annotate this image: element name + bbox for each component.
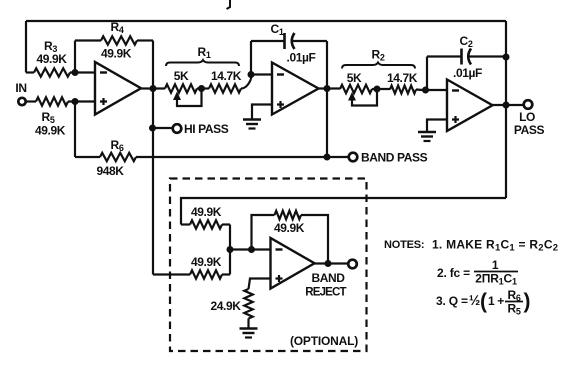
- resistor summer feedback 49.9K: [252, 211, 329, 264]
- label upper 49.9K: [191, 205, 222, 219]
- node U1 output junction: [150, 85, 157, 92]
- wire HP vertical down: [152, 89, 154, 275]
- resistor 24.9K: [244, 289, 252, 319]
- svg-text:5K: 5K: [347, 71, 362, 85]
- svg-text:948K: 948K: [96, 164, 124, 178]
- note 2 fraction numerator: [492, 258, 499, 272]
- label C1 value: [287, 51, 316, 65]
- U3 non-inverting input +: [452, 116, 459, 123]
- label R3: [44, 39, 57, 54]
- note 3 fraction denominator R5: [508, 302, 521, 317]
- resistor R1 14.7K: [197, 79, 251, 93]
- wire U4 + input: [249, 279, 271, 290]
- terminal HI PASS: [173, 124, 182, 133]
- label 5K R2: [347, 71, 362, 85]
- terminal LO PASS: [524, 100, 533, 109]
- svg-text:C1: C1: [271, 22, 284, 37]
- potentiometer R2 5K: [340, 85, 372, 93]
- node R1 wiper junction: [198, 85, 205, 92]
- note 3 fraction numerator R6: [508, 288, 521, 303]
- node summer junction: [227, 246, 234, 253]
- svg-text:R2: R2: [372, 48, 385, 63]
- wire U2 output: [319, 87, 341, 89]
- svg-text:.01µF: .01µF: [287, 51, 316, 65]
- dashed box optional: [170, 179, 367, 352]
- note 3 open paren: [480, 290, 487, 313]
- label R4 value 49.9K: [101, 47, 132, 61]
- svg-text:R5: R5: [508, 302, 521, 317]
- svg-text:HI PASS: HI PASS: [184, 122, 229, 136]
- capacitor C2 .01uF: [427, 49, 506, 65]
- U4 non-inverting input +: [276, 275, 283, 282]
- svg-text:1: 1: [492, 258, 499, 272]
- note 2 text: [437, 266, 470, 280]
- R1 wiper arrow: [173, 89, 202, 107]
- wire left vertical to R3: [25, 21, 27, 73]
- op-amp U1: [95, 62, 141, 115]
- label 5K: [174, 69, 189, 83]
- label C2 value: [453, 66, 482, 80]
- wire U3 inverting input: [426, 89, 448, 91]
- svg-text:BAND PASS: BAND PASS: [361, 151, 428, 165]
- wire band pass line: [136, 156, 349, 158]
- label R4: [111, 20, 124, 35]
- wire to HI PASS terminal: [153, 127, 173, 129]
- terminal IN: [18, 98, 25, 105]
- label 14.7K: [211, 69, 242, 83]
- resistor R5 49.9K: [27, 97, 96, 105]
- wire R4 right riser to U1 output: [152, 41, 154, 89]
- label 14.7K R2: [387, 71, 418, 85]
- svg-text:R1: R1: [198, 45, 211, 60]
- label REJECT: [305, 287, 346, 299]
- label feedback 49.9K: [274, 221, 305, 235]
- note 1 text: [432, 238, 558, 254]
- label R5: [42, 110, 55, 125]
- wire U4 output: [315, 262, 349, 264]
- svg-text:2. fc =: 2. fc =: [437, 266, 470, 280]
- svg-text:(OPTIONAL): (OPTIONAL): [290, 334, 358, 348]
- svg-text:14.7K: 14.7K: [211, 69, 242, 83]
- terminal BAND REJECT: [348, 260, 357, 269]
- note 2 fraction denominator: [475, 272, 517, 287]
- op-amp U3: [447, 80, 493, 132]
- svg-text:PASS: PASS: [514, 123, 545, 137]
- U1 non-inverting input +: [100, 98, 107, 105]
- label R6 value 948K: [96, 164, 124, 178]
- wire LP return to summer: [181, 198, 506, 225]
- label R3 value 49.9K: [36, 52, 67, 66]
- label PASS: [514, 123, 545, 137]
- wire U1 output: [141, 87, 165, 89]
- resistor R2 14.7K: [372, 86, 426, 94]
- label lower 49.9K: [191, 255, 222, 269]
- svg-text:1. MAKE R1C1 = R2C2: 1. MAKE R1C1 = R2C2: [432, 238, 558, 254]
- label 24.9K: [210, 299, 241, 313]
- wire C2 left riser: [426, 57, 428, 91]
- wire U3 + to ground: [427, 120, 447, 132]
- resistor R3 49.9K: [26, 68, 95, 76]
- wire R4 left riser: [74, 41, 76, 73]
- node junction R5/R6 non-inverting: [72, 98, 79, 105]
- node LO PASS junction: [503, 102, 510, 109]
- resistor R4 49.9K: [75, 36, 153, 44]
- ground 24.9K: [240, 329, 258, 338]
- label HI PASS: [184, 122, 229, 136]
- node U4 output junction: [325, 260, 332, 267]
- resistor R6 948K: [75, 153, 136, 161]
- node HI PASS tap: [149, 125, 156, 132]
- label BAND PASS: [361, 151, 428, 165]
- svg-text:BAND: BAND: [311, 271, 345, 285]
- U3 inverting input -: [452, 89, 459, 91]
- svg-text:R6: R6: [111, 138, 124, 153]
- ground U2: [243, 120, 261, 129]
- wire U2 output to band pass: [326, 89, 328, 158]
- terminal BAND PASS: [349, 153, 358, 162]
- label R1: [198, 45, 211, 60]
- svg-text:49.9K: 49.9K: [101, 47, 132, 61]
- U2 inverting input -: [277, 73, 284, 75]
- wire top feedback (LP to R3): [26, 20, 506, 22]
- label R6: [111, 138, 124, 153]
- svg-text:1 +: 1 +: [488, 294, 504, 308]
- node R2 wiper junction: [374, 86, 381, 93]
- svg-text:REJECT: REJECT: [305, 287, 346, 299]
- svg-text:(: (: [480, 290, 487, 313]
- svg-text:2ΠR1C1: 2ΠR1C1: [475, 272, 517, 287]
- svg-text:24.9K: 24.9K: [210, 299, 241, 313]
- wire 24.9K to ground: [247, 319, 249, 328]
- label NOTES heading: [384, 239, 424, 251]
- svg-text:): ): [524, 290, 531, 313]
- svg-text:IN: IN: [15, 81, 26, 95]
- op-amp U4 band reject: [271, 238, 315, 289]
- svg-text:.01µF: .01µF: [453, 66, 482, 80]
- note 3 fraction bar: [505, 301, 523, 303]
- wire U4 inverting input: [230, 248, 271, 250]
- svg-text:49.9K: 49.9K: [274, 221, 305, 235]
- resistor summer upper 49.9K: [181, 220, 230, 228]
- label C2: [460, 34, 473, 49]
- resistor summer lower 49.9K: [153, 270, 230, 278]
- R2 wiper arrow: [348, 89, 377, 106]
- svg-text:5K: 5K: [174, 69, 189, 83]
- label IN: [15, 81, 26, 95]
- svg-text:½: ½: [469, 293, 480, 308]
- artifact top tick: [227, 0, 231, 9]
- brace R1: [166, 60, 239, 66]
- op-amp U2: [272, 63, 319, 115]
- label BAND: [311, 271, 345, 285]
- note 3 text: [436, 293, 480, 308]
- node band pass junction: [324, 154, 331, 161]
- ground U3: [418, 132, 436, 141]
- node U2 inverting junction: [248, 71, 255, 78]
- note 3 body: [488, 294, 504, 308]
- label C1: [271, 22, 284, 37]
- potentiometer R1 5K: [165, 84, 197, 92]
- U2 non-inverting input +: [277, 101, 284, 108]
- label OPTIONAL: [290, 334, 358, 348]
- brace R2: [342, 63, 415, 69]
- wire right vertical feedback: [505, 21, 507, 198]
- node U2 output junction: [324, 85, 331, 92]
- svg-text:NOTES:: NOTES:: [384, 239, 424, 251]
- wire U2 inverting input: [251, 73, 272, 75]
- wire U2 + to ground: [252, 105, 272, 119]
- svg-text:49.9K: 49.9K: [35, 124, 66, 138]
- label LO: [519, 110, 535, 124]
- capacitor C1 .01uF: [285, 33, 328, 49]
- wire U3 output: [493, 104, 524, 106]
- node C2 right junction: [503, 54, 510, 61]
- label R5 value 49.9K: [35, 124, 66, 138]
- svg-text:R4: R4: [111, 20, 124, 35]
- node U3 inverting junction: [422, 87, 429, 94]
- wire R6 left riser: [74, 102, 76, 158]
- svg-text:49.9K: 49.9K: [191, 255, 222, 269]
- svg-text:49.9K: 49.9K: [191, 205, 222, 219]
- svg-text:LO: LO: [519, 110, 535, 124]
- wire C1 right riser: [326, 41, 328, 89]
- node feedback riser junction: [248, 246, 255, 253]
- wire C1 top left: [251, 40, 285, 42]
- note 2 fraction bar: [474, 271, 518, 273]
- U4 inverting input -: [276, 248, 283, 250]
- label R2: [372, 48, 385, 63]
- wire summer join vertical: [229, 225, 231, 275]
- svg-text:49.9K: 49.9K: [36, 52, 67, 66]
- wire C1 left riser: [250, 41, 252, 79]
- note 3 close paren: [524, 290, 531, 313]
- svg-text:C2: C2: [460, 34, 473, 49]
- svg-text:3. Q =: 3. Q =: [436, 294, 468, 308]
- U1 inverting input -: [100, 71, 107, 73]
- svg-text:14.7K: 14.7K: [387, 71, 418, 85]
- node junction R3/R4 inverting: [72, 69, 79, 76]
